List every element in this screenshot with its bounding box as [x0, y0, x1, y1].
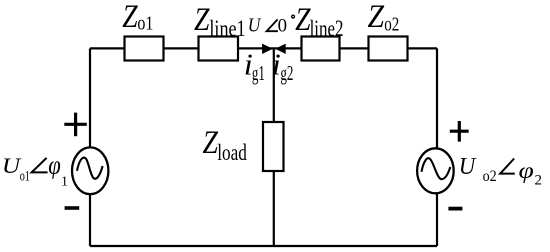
svg-text:U: U [248, 14, 262, 37]
svg-text:line1: line1 [209, 15, 245, 42]
svg-text:1: 1 [61, 174, 68, 189]
svg-text:i: i [272, 47, 281, 81]
svg-text:Z: Z [194, 1, 210, 38]
svg-text:Z: Z [122, 0, 138, 35]
svg-text:line2: line2 [310, 16, 344, 41]
wire top rail [90, 47, 437, 49]
source U_o1 [72, 147, 108, 194]
svg-text:g1: g1 [252, 61, 265, 85]
svg-text:o1: o1 [20, 168, 30, 184]
svg-text:φ: φ [519, 158, 534, 183]
arrow i_g2 [275, 44, 286, 54]
minus sign left [65, 206, 80, 210]
label Z_line1 [194, 1, 246, 42]
label Z_o2 [368, 0, 400, 35]
label Z_o1 [122, 0, 153, 35]
svg-text:φ: φ [48, 151, 61, 180]
resistor Z_load [263, 122, 284, 171]
label U_o2 angle phi2 [459, 153, 542, 188]
svg-text:U: U [459, 153, 478, 180]
svg-text:g2: g2 [280, 61, 293, 85]
svg-text:2: 2 [535, 172, 543, 188]
label U_o1 angle phi1 [2, 151, 68, 189]
resistor Z_o2 [369, 37, 408, 61]
resistor Z_o1 [125, 37, 164, 61]
svg-text:Z: Z [203, 124, 219, 161]
svg-text:o2: o2 [483, 168, 497, 185]
label Z_line2 [295, 1, 343, 42]
arrow i_g1 [262, 44, 273, 54]
label Z_load [203, 124, 247, 166]
label i_g1 [244, 47, 265, 85]
plus sign right [450, 121, 469, 142]
svg-text:0: 0 [278, 15, 287, 36]
wire middle vertical [273, 48, 275, 246]
svg-text:U: U [2, 154, 22, 178]
resistor Z_line1 [199, 37, 239, 61]
wire left vertical [89, 48, 91, 149]
svg-text:Z: Z [368, 0, 385, 34]
label i_g2 [272, 47, 294, 84]
wire bottom rail [90, 245, 437, 247]
source U_o2 [417, 148, 454, 193]
wire left lower [89, 193, 91, 246]
wire right vertical [436, 48, 438, 150]
svg-text:o1: o1 [137, 12, 153, 34]
plus sign left [64, 113, 87, 137]
svg-text:o2: o2 [384, 12, 399, 35]
resistor Z_line2 [302, 37, 340, 61]
wire right lower [436, 192, 438, 246]
svg-text:load: load [217, 141, 247, 166]
minus sign right [448, 207, 462, 211]
label U angle 0 deg [248, 14, 295, 37]
